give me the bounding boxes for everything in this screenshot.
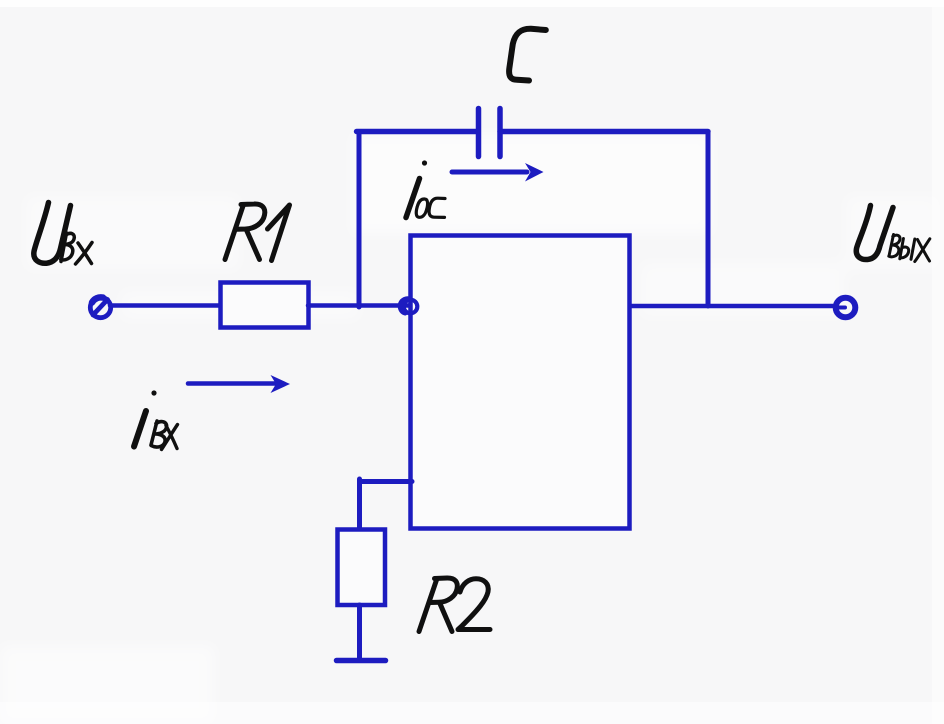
arrow i_vx xyxy=(188,375,290,393)
capacitor C left plate xyxy=(476,109,482,157)
label U_vx xyxy=(34,203,92,265)
capacitor C right plate xyxy=(497,109,503,157)
wire capacitor to right xyxy=(500,129,708,134)
output terminal xyxy=(836,298,856,318)
wire input to R1 xyxy=(110,303,221,308)
label i_oc xyxy=(406,160,445,217)
wire R2 to ground xyxy=(357,605,362,658)
wire feedback up from node xyxy=(357,132,362,308)
ground xyxy=(337,658,386,664)
wire feedback down to output xyxy=(706,132,711,307)
wire box to R2 horizontal xyxy=(360,479,413,484)
arrow i_oc xyxy=(452,163,544,182)
label U_vyx xyxy=(856,206,930,262)
wire R1 to node A xyxy=(308,303,410,308)
wire top left to capacitor xyxy=(357,129,478,134)
wire down to R2 xyxy=(357,479,362,531)
node A junction xyxy=(401,299,418,313)
resistor R2 xyxy=(338,530,386,606)
label R1 xyxy=(225,204,290,261)
resistor R1 xyxy=(221,283,309,328)
label i_vx xyxy=(134,390,178,449)
label R2 xyxy=(419,578,490,632)
input terminal xyxy=(90,297,110,317)
label C xyxy=(509,29,546,81)
op-amp U1 box xyxy=(411,236,630,529)
wire output xyxy=(630,304,836,309)
